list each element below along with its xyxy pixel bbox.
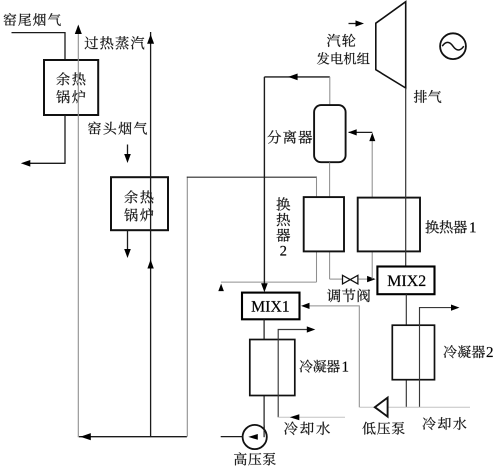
- wire cooling water 1 riser: [278, 330, 307, 418]
- arrow cooling1 out right: [307, 326, 316, 332]
- arrow into separator left: [348, 129, 357, 135]
- wire separator tap riser: [371, 136, 373, 279]
- arrow cooling1 in left: [290, 414, 300, 420]
- arrow into MIX1 down: [261, 283, 268, 292]
- low pressure pump triangle 低压泵: [375, 398, 388, 417]
- wire loop bottom horizontal: [221, 281, 317, 283]
- wire pump discharge stub: [221, 436, 243, 438]
- label superheated steam 过热蒸汽: [85, 36, 98, 49]
- wire flue-gas 2 outlet: [127, 230, 129, 250]
- wire into pump from condenser1: [263, 426, 265, 438]
- label boiler2 锅炉: [124, 208, 137, 221]
- wire MIX2 to condenser2 (through): [405, 294, 407, 407]
- label separator 分离器: [267, 130, 281, 143]
- wire LP pump riser to MIX1: [310, 306, 360, 407]
- arrow turbine inlet: [349, 23, 358, 25]
- arrow into MIX1 left: [301, 303, 310, 309]
- label cooling water right 冷却水: [423, 417, 436, 430]
- wire flue-gas 2 inlet: [127, 145, 129, 156]
- heat exchanger 1 box: [358, 198, 420, 252]
- wire flue-gas 1 outlet: [24, 115, 65, 163]
- arrow flue2 in down: [124, 154, 131, 163]
- high pressure pump circle 高压泵: [243, 425, 267, 449]
- arrow loop end up: [218, 284, 224, 292]
- arrow cooling2 out right: [451, 305, 460, 311]
- arrow flue1 out left: [21, 160, 31, 167]
- wire MIX1 to pump (through condenser1): [263, 319, 265, 437]
- label boiler1 余热: [57, 72, 70, 85]
- arrow to-MIX1 left mid: [288, 74, 298, 81]
- wire turbine exhaust drop: [405, 88, 407, 267]
- wire loop top horizontal: [187, 176, 317, 178]
- wire cooling water 2 riser: [420, 308, 453, 408]
- MIX1 box: [242, 293, 300, 320]
- arrow superheated steam B up: [147, 34, 154, 44]
- separator rounded box 分离器: [314, 105, 346, 162]
- label 冷凝器1: [300, 360, 313, 373]
- label turbine 汽轮: [327, 34, 340, 47]
- label cooling water left 冷却水: [284, 422, 298, 435]
- label kiln-head flue gas 窑头烟气: [88, 122, 101, 135]
- label kiln-tail flue gas 窑尾烟气: [4, 13, 16, 26]
- wire separator bottom drop: [329, 162, 331, 279]
- label boiler1 锅炉: [56, 90, 69, 103]
- condenser 1 box: [250, 340, 295, 396]
- wire riser A lower corner: [77, 436, 79, 437]
- arrow riser B mid up: [147, 260, 153, 269]
- wire separator-top to MIX1 horizontal: [264, 76, 329, 78]
- condenser 2 box: [392, 325, 434, 380]
- wire separator top link: [329, 77, 331, 105]
- wire feedwater riser B (through boiler2): [150, 32, 152, 437]
- wire feedwater riser A (through boiler1): [77, 26, 79, 436]
- wire valve to MIX2: [358, 278, 367, 280]
- arrow superheated steam A up: [75, 25, 82, 35]
- label MIX2: [388, 276, 401, 286]
- label 冷凝器2: [444, 345, 457, 358]
- control valve 调节阀 bowtie: [343, 275, 358, 284]
- wire valve feed: [330, 278, 343, 280]
- waste-heat boiler 1 box: [44, 60, 98, 115]
- heat exchanger 2 box: [304, 197, 344, 251]
- wire cooling water 1 inlet: [278, 416, 345, 418]
- label 换热器2 vertical: [277, 197, 291, 210]
- wire tap to separator: [349, 131, 373, 133]
- wire condensate/cooling bottom line 2: [360, 406, 470, 408]
- arrow into MIX2 right: [367, 276, 376, 282]
- label exhaust 排气: [414, 90, 427, 103]
- node loop-left vertical: [186, 177, 188, 437]
- label boiler2 余热: [125, 190, 138, 203]
- label MIX1: [252, 301, 265, 311]
- generator circle: [440, 33, 466, 59]
- label 高压泵: [234, 452, 247, 465]
- arrow flue2 out down: [124, 249, 131, 258]
- steam turbine polygon: [376, 2, 406, 88]
- label valve 调节阀: [327, 289, 340, 302]
- label turbine 发电机组: [317, 52, 329, 64]
- wire kiln-tail flue-gas inlet: [12, 33, 66, 60]
- waste-heat boiler 2 box: [111, 177, 168, 230]
- arrow feed header left: [80, 433, 91, 440]
- label 低压泵: [362, 422, 375, 435]
- arrow inside pump left: [248, 434, 257, 440]
- MIX2 box: [377, 267, 434, 295]
- arrow tap up: [369, 133, 375, 142]
- wire bottom feed header: [79, 436, 187, 438]
- wire MIX1 feed drop: [263, 77, 265, 289]
- wire loop right vertical (through HX2): [316, 177, 318, 282]
- label 换热器1: [426, 220, 439, 233]
